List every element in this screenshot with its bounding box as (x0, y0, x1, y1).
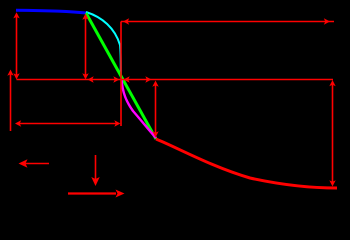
cyan curve (steepening falling edge) (86, 12, 121, 75)
green line (linear slope approximation) (86, 13, 156, 139)
red curve (exponential decay tail) (156, 139, 337, 188)
horizontal double arrow at y=123.5 (17, 123, 118, 125)
vertical double arrow at x=332.5 (right amplitude) (332, 83, 334, 182)
vertical double arrow at x=85.5 (85, 17, 87, 76)
blue curve (flat top plateau) (16, 10, 86, 13)
short left arrow at y=163.5 (25, 163, 49, 165)
up arrow at x=10.5 (10, 73, 12, 131)
right-pointing head at x=151.5 on level line (145, 76, 151, 82)
vertical double arrow at x=16.5 (amplitude, top-left) (16, 15, 18, 76)
right arrow at y=193.5 (bottom) (68, 190, 125, 198)
vertical line at x=121 (from top arrow to crossing) (120, 22, 122, 127)
left-pointing head at x=87.5 on level line (88, 76, 94, 82)
long horizontal level line y=79.5 (17, 79, 334, 81)
horizontal double arrow at y=21.5 (top time span) (121, 21, 334, 23)
right-pointing head at x=119.5 on level line (113, 76, 119, 82)
left-pointing head at x=123.5 on level line (124, 76, 130, 82)
magenta curve (lower falling edge) (122, 79, 157, 138)
vertical double arrow at x=155.5 (junction) (155, 84, 157, 133)
down arrow at x=95.5 (95, 155, 97, 180)
